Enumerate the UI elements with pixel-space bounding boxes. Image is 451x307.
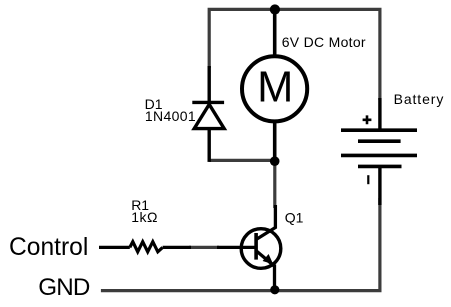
svg-text:1kΩ: 1kΩ: [131, 209, 158, 225]
wire from motor-bottom node down to Q1 collector: [273, 161, 276, 208]
battery top lead: [378, 98, 381, 130]
transistor Q1 base lead: [217, 246, 256, 249]
wire GND rail up to battery negative: [101, 198, 380, 291]
diode D1 cathode bar: [192, 101, 224, 104]
svg-text:6V DC Motor: 6V DC Motor: [282, 34, 366, 50]
node junction emitter / GND rail: [270, 285, 279, 294]
motor M1 body circle: [242, 56, 307, 121]
svg-text:GND: GND: [38, 274, 90, 301]
transistor Q1 emitter lead down to GND: [273, 265, 276, 291]
diode D1 triangle (anode, pointing up): [194, 104, 224, 128]
battery plate 3 long: [341, 154, 417, 158]
motor bottom lead: [273, 120, 277, 161]
transistor Q1 collector line: [256, 205, 275, 240]
battery plate 2 short: [358, 139, 401, 143]
wire from diode bottom to motor-bottom node: [209, 159, 275, 162]
motor top lead: [273, 10, 277, 59]
node junction motor bottom / diode / collector: [270, 156, 280, 166]
transistor Q1 emitter arrowhead: [263, 254, 274, 264]
svg-text:Battery: Battery: [394, 91, 445, 107]
diode D1 top lead (cathode side): [207, 66, 210, 102]
transistor Q1 base bar: [254, 233, 258, 260]
resistor R1 right lead: [163, 246, 191, 249]
battery plate 4 short (negative): [358, 165, 402, 169]
battery plus sign: [363, 115, 372, 124]
transistor Q1 emitter line: [256, 251, 274, 266]
wire from R1 to Q1 base: [189, 246, 219, 249]
node junction top (motor to supply rail): [270, 4, 280, 14]
battery plate 1 long (positive): [341, 128, 417, 132]
battery bottom lead: [378, 166, 381, 205]
battery minus tick: [367, 175, 369, 184]
svg-text:Q1: Q1: [285, 209, 304, 225]
wire top rail from diode branch to battery branch: [209, 9, 380, 100]
resistor R1 left lead: [99, 246, 130, 249]
resistor R1 zigzag body: [130, 242, 163, 252]
svg-text:1N4001: 1N4001: [145, 108, 196, 124]
transistor Q1 body circle: [241, 229, 281, 269]
diode D1 bottom lead (anode side): [207, 129, 210, 162]
svg-text:M: M: [257, 64, 293, 112]
svg-text:Control: Control: [9, 234, 88, 261]
